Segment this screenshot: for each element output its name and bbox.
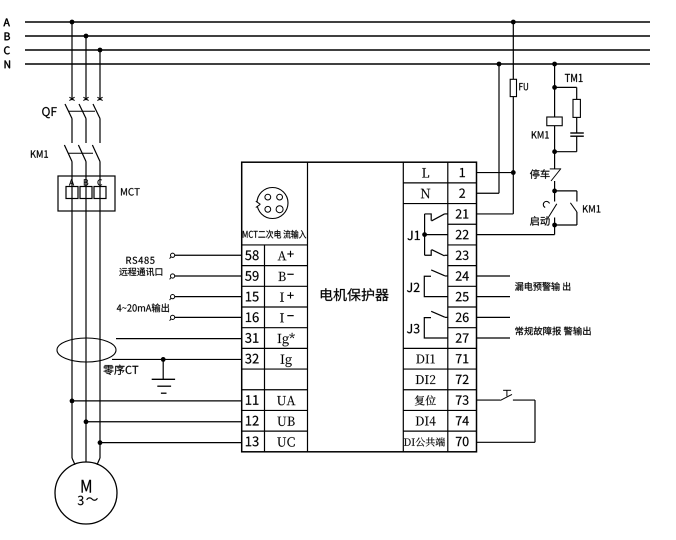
terminal number 25 <box>456 292 469 302</box>
left terminal row boundary 4 <box>242 244 308 246</box>
bus line A <box>25 21 650 23</box>
wire stop to start node <box>554 181 556 191</box>
wire terminal 26 stub <box>477 316 511 318</box>
relay J2 label <box>407 283 420 293</box>
breaker QF blade phase A <box>65 104 72 119</box>
CT window phase B <box>80 187 92 199</box>
node tap A for FU <box>511 20 516 25</box>
fuse FU body <box>510 79 516 96</box>
motor label M <box>82 480 91 493</box>
wire start to terminal 22 <box>554 225 556 235</box>
right number cell boundary 4 <box>448 244 477 246</box>
connector circle row 16 <box>171 315 175 319</box>
right terminal row boundary 10 <box>403 368 476 370</box>
right terminal row boundary 2 <box>403 203 476 205</box>
relay J1 top blade <box>432 214 445 221</box>
right terminal row boundary 12 <box>403 409 476 411</box>
terminal number 72 <box>456 375 469 384</box>
breaker QF blade phase B <box>79 104 86 119</box>
terminal number 23 <box>456 251 469 260</box>
bus line B <box>25 35 650 37</box>
protector label 电机保护器 <box>321 288 389 301</box>
wire reset loop vertical <box>534 400 536 442</box>
wire FU to L junction <box>512 97 514 173</box>
terminal label I- <box>280 313 284 322</box>
connector pin 2 <box>277 194 283 200</box>
terminal label DI2 <box>416 375 436 384</box>
wire phase A drop to QF <box>71 22 73 100</box>
contactor KM1 linkage bar <box>69 152 94 154</box>
terminal number 24 <box>456 271 469 280</box>
node tap N for terminal 2 <box>497 62 502 67</box>
wire terminal 24 stub <box>477 275 511 277</box>
left terminal row boundary 12 <box>242 409 308 411</box>
contactor KM1 blade phase B <box>78 145 86 162</box>
right number cell boundary 3 <box>448 223 477 225</box>
label RS485 <box>126 257 154 264</box>
wire N to coil branch <box>554 64 556 87</box>
wire coil down <box>554 126 556 152</box>
right number cell boundary 7 <box>448 306 477 308</box>
relay J1 node common <box>422 232 427 237</box>
right number cell boundary 5 <box>448 265 477 267</box>
terminal number 26 <box>456 313 469 323</box>
terminal label UA <box>277 396 295 405</box>
wire resistor to capacitor <box>576 117 578 132</box>
wire capacitor down <box>576 136 578 152</box>
relay J3 blade <box>431 311 445 317</box>
CT phase label B <box>84 179 88 185</box>
contactor KM1 label <box>31 150 48 157</box>
wire QF to KM1 phase A <box>71 119 73 144</box>
relay J1 bottom blade <box>432 250 445 256</box>
protector left column divider x1 <box>264 245 266 452</box>
CT phase label C <box>98 179 103 185</box>
label 漏电预警输出 <box>515 282 570 291</box>
node start circuit bottom <box>552 223 557 228</box>
connector keyway notch <box>255 200 261 208</box>
terminal number 70 <box>456 437 469 447</box>
right terminal row boundary 11 <box>403 389 476 391</box>
wire split to RC branch <box>555 86 577 88</box>
wire coil branch <box>554 87 556 116</box>
terminal number 71 <box>456 354 468 363</box>
pushbutton 启动 label <box>530 216 550 226</box>
terminal label UC <box>277 437 294 447</box>
left terminal row boundary 5 <box>242 265 308 267</box>
wire tap to terminal 12 UB <box>86 421 242 423</box>
terminal label DI4 <box>416 417 436 426</box>
CT phase label A <box>69 179 74 185</box>
CT window phase C <box>94 187 106 199</box>
terminal label UB <box>277 417 294 426</box>
right terminal row boundary 9 <box>403 347 476 349</box>
bus label N <box>5 61 10 69</box>
resistor TM1 body <box>573 99 580 117</box>
node tap phase A on bus <box>70 20 75 25</box>
wire QF to KM1 phase B <box>85 119 87 144</box>
right number cell boundary 6 <box>448 285 477 287</box>
connector circle row 15 <box>171 295 175 299</box>
wire tap to terminal 11 UA <box>72 400 242 402</box>
connector circle row 58 <box>171 253 175 257</box>
wire ground drop <box>162 359 164 379</box>
label MCT二次电流输入 <box>243 230 306 239</box>
CT window phase A <box>66 187 78 199</box>
node tap UA on phase A <box>70 398 75 403</box>
connector pin 1 <box>265 194 271 200</box>
breaker QF label <box>42 107 57 118</box>
QF fixed contact X phase B <box>83 97 88 100</box>
wire phase B drop to QF <box>85 36 87 100</box>
terminal number 31 <box>245 333 258 343</box>
wire terminal 25 stub <box>477 296 511 298</box>
left terminal row boundary 7 <box>242 306 308 308</box>
wire tap to terminal 13 UC <box>100 442 242 444</box>
relay J1 bottom hook <box>425 250 432 255</box>
left terminal row boundary 11 <box>242 389 308 391</box>
wire QF to KM1 phase C <box>99 119 101 144</box>
label 4~20mA输出 <box>117 303 169 312</box>
wire zero CT to terminal 32 <box>112 358 242 360</box>
node junction L wire <box>511 170 516 175</box>
relay J1 common bar <box>424 214 426 255</box>
CT zero-sequence ellipse <box>57 338 116 362</box>
contactor KM1 blade phase A <box>64 145 72 162</box>
wire KM1 aux bottom <box>576 212 578 225</box>
pushbutton 启动 NO contact <box>548 204 557 218</box>
wire start button bottom <box>554 218 556 226</box>
wire phase A KM1 to motor <box>71 162 73 459</box>
relay J1 wire to 22 <box>425 234 448 236</box>
left terminal row boundary 13 <box>242 430 308 432</box>
wire fused phase A drop <box>512 22 514 79</box>
wire phase B KM1 to motor <box>85 162 87 463</box>
breaker QF linkage bar <box>69 110 96 112</box>
CT MCT label <box>121 188 140 196</box>
protector right column divider x3 <box>402 162 404 452</box>
terminal label Ig <box>281 355 292 367</box>
wire phase C KM1 to motor <box>99 162 101 459</box>
terminal label DI1 <box>416 355 435 364</box>
terminal label Ig* <box>278 333 295 347</box>
node split coil/RC <box>552 85 557 90</box>
node tap UC on phase C <box>98 440 103 445</box>
terminal number 2 <box>459 189 465 198</box>
bus label B <box>5 33 10 41</box>
terminal number 22 <box>456 230 469 239</box>
capacitor TM1 plates <box>570 132 584 134</box>
bus label C <box>4 46 10 54</box>
pushbutton reset operator T <box>503 389 511 391</box>
wire zero CT to terminal 31 <box>116 338 242 340</box>
CT assembly MCT box <box>58 176 115 211</box>
node tap N control branch <box>552 62 557 67</box>
terminal number 11 <box>246 395 259 405</box>
right number cell boundary 8 <box>448 327 477 329</box>
relay J1 top hook <box>425 214 432 221</box>
label 常规故障报警输出 <box>515 327 590 336</box>
pushbutton reset blade <box>500 394 512 400</box>
terminal number 58 <box>245 250 259 260</box>
contactor coil KM1 body <box>547 117 562 126</box>
wire start rejoin bar <box>555 224 577 226</box>
terminal number 74 <box>456 416 469 425</box>
terminal stub wire row 16 <box>175 316 242 318</box>
node tap phase B on bus <box>84 34 89 39</box>
terminal number 32 <box>245 354 258 364</box>
wire terminal 1 L to fused A <box>477 172 514 174</box>
terminal number 13 <box>246 437 259 447</box>
contact KM1 aux blade <box>570 203 577 212</box>
left terminal row boundary 8 <box>242 327 308 329</box>
right terminal row boundary 13 <box>403 430 476 432</box>
relay J3 hook <box>424 318 448 338</box>
terminal label 复位 <box>415 395 436 405</box>
terminal number 59 <box>245 271 258 281</box>
wire phase C drop to QF <box>99 50 101 100</box>
terminal label A+ <box>278 251 287 260</box>
label TM1 <box>565 74 583 82</box>
node tap UB on phase B <box>84 419 89 424</box>
node start circuit top <box>552 189 557 194</box>
protector left column divider x2 <box>307 162 309 452</box>
contact KM1 aux label <box>583 205 600 212</box>
wire loop to terminal 70 <box>477 441 536 443</box>
wire start button top <box>554 191 556 202</box>
terminal label I+ <box>280 293 284 302</box>
motor M circle <box>55 462 117 524</box>
pushbutton 停车 NC contact <box>550 168 561 170</box>
wire L junction to terminal 21 <box>512 173 514 214</box>
protector box outline <box>242 162 477 452</box>
terminal number 1 <box>460 168 465 177</box>
CT zero-sequence label 零序CT <box>103 365 138 375</box>
relay J2 hook <box>424 276 448 296</box>
terminal number 21 <box>456 209 469 218</box>
terminal label B- <box>279 272 286 281</box>
terminal label DI公共端 <box>404 437 445 446</box>
wire to resistor <box>576 87 578 99</box>
bus line N <box>25 63 650 65</box>
connector pin 3 <box>265 206 271 212</box>
wire terminal 22 to start circuit <box>477 234 555 236</box>
terminal number 15 <box>246 292 259 302</box>
left terminal row boundary 9 <box>242 347 308 349</box>
terminal number 16 <box>246 312 259 322</box>
QF fixed contact X phase A <box>69 97 74 100</box>
terminal label L <box>422 168 429 177</box>
bus label A <box>4 19 10 27</box>
wire to stop button <box>554 152 556 169</box>
relay J3 label <box>407 324 420 334</box>
terminal number 12 <box>246 416 259 426</box>
bus line C <box>25 49 650 51</box>
fuse FU label <box>519 83 528 90</box>
wire start node to KM1 aux <box>555 190 577 192</box>
contactor KM1 blade phase C <box>92 145 100 162</box>
terminal number 73 <box>456 395 469 404</box>
label 远程通讯口 <box>119 268 162 276</box>
relay J1 label <box>407 231 419 240</box>
terminal stub wire row 59 <box>175 275 242 277</box>
wire terminal 73 to reset button <box>477 399 501 401</box>
node RC rejoin <box>552 149 557 154</box>
ground symbol <box>152 378 175 380</box>
right terminal row boundary 1 <box>403 182 476 184</box>
wire terminal 2 N <box>477 192 500 194</box>
relay J2 blade <box>431 270 445 276</box>
terminal number 27 <box>456 333 469 342</box>
left terminal row boundary 6 <box>242 285 308 287</box>
protector right column divider x4 <box>447 162 449 452</box>
connector MCT socket circle <box>257 188 288 219</box>
contactor coil KM1 label <box>532 131 549 138</box>
wire terminal 27 stub <box>477 337 511 339</box>
connector pin 4 <box>276 206 283 213</box>
terminal label N <box>421 189 430 199</box>
wire reset button to loop <box>513 399 535 401</box>
connector circle row 59 <box>171 274 175 278</box>
motor label 3~ <box>78 496 84 506</box>
terminal stub wire row 58 <box>175 254 242 256</box>
terminal stub wire row 15 <box>175 296 242 298</box>
left terminal row boundary 10 <box>242 368 308 370</box>
node ground junction <box>161 357 166 362</box>
pushbutton 停车 label <box>530 169 550 179</box>
wire RC rejoin bar <box>555 151 577 153</box>
wire KM1 aux top <box>576 191 578 202</box>
node tap phase C on bus <box>98 48 103 53</box>
breaker QF blade phase C <box>93 104 100 119</box>
QF fixed contact X phase C <box>97 97 102 100</box>
